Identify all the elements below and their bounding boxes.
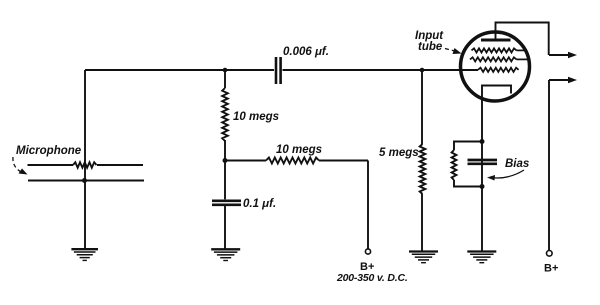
svg-text:10 megs: 10 megs <box>276 144 322 156</box>
capacitor C2 0.1 uf plates <box>212 199 241 202</box>
wire: drop to middle B+ terminal <box>367 161 369 250</box>
wire: microphone ground lead <box>84 181 86 250</box>
node: junction cathode / bias network top <box>480 139 485 144</box>
microphone: top line with carbon-button resistance element <box>28 164 74 166</box>
node: junction R1 / R2 / 0.1 uf capacitor <box>223 158 228 163</box>
tube V1 envelope (Input tube) <box>461 32 530 101</box>
node: junction top rail / 5 megs resistor <box>420 68 425 73</box>
svg-text:tube: tube <box>418 41 443 53</box>
node: junction top rail / 10 megs grid resistor <box>223 68 228 73</box>
wire: bias loop bottom <box>454 180 482 187</box>
svg-text:200-350 v. D.C.: 200-350 v. D.C. <box>336 272 408 284</box>
svg-text:0.1 μf.: 0.1 μf. <box>243 198 276 210</box>
wire: bias loop top <box>454 142 482 151</box>
wire: vertical drop from rail to microphone <box>84 70 86 181</box>
tube V1 cathode hook <box>482 86 511 142</box>
arrow: Microphone pointer (dashed, curved) <box>13 157 22 173</box>
capacitor C3 bias plates <box>468 159 498 162</box>
wire: plate lead up and to output corner <box>496 23 549 56</box>
arrow: Bias pointer (curved, solid) <box>490 170 524 178</box>
wire: cathode line through bias cap to ground <box>481 142 483 252</box>
svg-text:0.006 μf.: 0.006 μf. <box>283 46 329 58</box>
tube V1 grid zigzag row 3 (control grid, fed from rail) <box>478 68 519 72</box>
tube V1 grid zigzag row 2 <box>470 57 517 61</box>
resistor R1 10 megs (grid leak, vertical) <box>224 70 226 88</box>
ground: below microphone <box>71 249 98 260</box>
svg-text:5 megs: 5 megs <box>379 147 419 159</box>
tube V1 plate bar <box>481 39 511 42</box>
node: junction microphone bottom line / ground lead <box>82 178 87 183</box>
svg-text:B+: B+ <box>544 263 558 275</box>
svg-text:Bias: Bias <box>505 158 529 170</box>
node: junction bias network bottom <box>480 184 485 189</box>
wire: main top rail right of coupling cap into tube grid <box>283 69 479 71</box>
capacitor C2 0.1 uf branch wire (top) <box>224 161 226 200</box>
wire: C2 to ground <box>224 206 226 250</box>
terminal: right B+ (open circle) <box>547 251 553 257</box>
wire: right B+ riser <box>548 80 550 251</box>
arrow: Input tube pointer (dashed) <box>445 49 455 52</box>
resistor R4 bias (left branch of bias network) <box>452 150 457 180</box>
terminal: middle B+ (open circle) <box>365 249 370 254</box>
svg-text:10 megs: 10 megs <box>233 111 279 123</box>
wire: output arrow 1 (plate) <box>549 54 573 56</box>
capacitor C1 0.006 uf coupling plates <box>275 57 278 84</box>
resistor R2 10 megs (horizontal, to B+) <box>225 160 266 162</box>
ground: below C2 <box>211 249 240 260</box>
resistor R3 5 megs (vertical) <box>421 70 423 144</box>
svg-text:Microphone: Microphone <box>16 145 82 157</box>
tube V1 grid zigzag row 1 <box>472 48 517 52</box>
ground: below R3 <box>409 252 438 263</box>
wire: main top rail left of coupling cap <box>85 69 274 71</box>
microphone: bottom line <box>28 180 144 182</box>
ground: below bias network <box>467 252 496 263</box>
wire: output arrow 2 (B+ side) <box>549 79 573 81</box>
